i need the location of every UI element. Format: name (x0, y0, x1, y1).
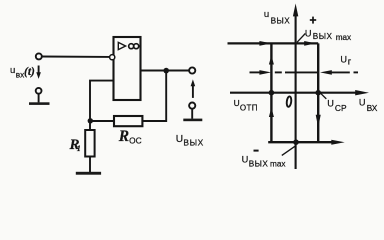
svg-text:ОС: ОС (129, 136, 142, 146)
R1 bottom lead (89, 157, 91, 173)
svg-text:U: U (176, 134, 183, 145)
svg-text:R: R (118, 128, 129, 145)
ground (input side) (29, 102, 50, 105)
node A junction dot (88, 118, 93, 123)
pointer line to -U_BbIXmax label (282, 146, 295, 155)
output ground terminal circle (189, 103, 195, 109)
input ground terminal circle (36, 88, 42, 94)
svg-text:ОТП: ОТП (240, 103, 258, 112)
wire node A to Roc (90, 120, 114, 122)
svg-text:г: г (348, 56, 352, 67)
label 0 at origin (286, 96, 292, 107)
plus sign (310, 17, 316, 24)
svg-text:ВЫХ: ВЫХ (183, 137, 203, 147)
label U_BbIXmax (bottom) (242, 155, 286, 169)
label U_BbIXmax (top) (305, 29, 351, 43)
label R1 (69, 137, 81, 153)
label Roc (118, 128, 142, 146)
junction dot at U_OTP on x-axis (269, 90, 275, 96)
resistor Roc (114, 116, 142, 126)
svg-text:U: U (359, 97, 366, 107)
output voltage arrow (up) (191, 79, 196, 98)
label u_BbIX (y axis) (264, 9, 290, 26)
svg-text:ВХ: ВХ (367, 103, 378, 113)
non-inverting input wire from node A (90, 81, 114, 121)
svg-text:U: U (234, 98, 240, 108)
op-amp infinity symbol (129, 44, 139, 49)
hysteresis top line (228, 42, 319, 44)
svg-text:ВЫХ: ВЫХ (271, 17, 291, 26)
label u_BX(t) (10, 65, 35, 80)
svg-text:СР: СР (335, 103, 347, 113)
junction dot at -Umax on y-axis (293, 139, 299, 145)
hysteresis bottom line (268, 141, 332, 143)
down arrow on right vertical (316, 115, 321, 128)
hysteresis left vertical at U_OTP (270, 43, 272, 142)
svg-text:max: max (336, 33, 351, 42)
resistor R1 (85, 130, 94, 157)
pointer line to +U_BbIXmax label (297, 34, 305, 43)
hysteresis right vertical at U_CP (317, 43, 319, 142)
wire input terminal to op-amp inverting input (42, 56, 110, 58)
output ground stem (191, 109, 193, 119)
svg-text:U: U (327, 98, 334, 108)
label u_BbIX (circuit output) (176, 134, 204, 147)
svg-text:u: u (10, 65, 15, 76)
pointer line to U_CP label (321, 93, 327, 99)
svg-text:U: U (242, 155, 249, 165)
svg-text:ВЫХ: ВЫХ (249, 159, 269, 168)
label U_g (340, 55, 351, 68)
output terminal (189, 67, 195, 73)
input terminal (36, 53, 42, 59)
output node junction dot (163, 68, 169, 74)
x-axis u_BX (230, 90, 369, 95)
y-axis u_BbIX (293, 4, 298, 170)
up arrow on left vertical (upper) (269, 55, 274, 64)
label U_OTP (234, 98, 258, 112)
svg-text:1: 1 (77, 144, 81, 153)
junction dot at U_CP on x-axis (315, 90, 321, 96)
wire node A to R1 (89, 121, 91, 131)
ground (output side) (183, 119, 202, 122)
minus sign (254, 150, 259, 152)
inverting input inversion circle (110, 55, 115, 60)
svg-text:вх: вх (16, 71, 24, 80)
svg-text:ВЫХ: ВЫХ (313, 32, 333, 41)
U_g dimension line with inward arrows (250, 70, 359, 75)
input ground stem (38, 94, 40, 103)
arrow on top line at U_OTP (259, 41, 271, 46)
label u_BX (x axis) (359, 97, 378, 113)
op-amp gain triangle symbol (118, 42, 125, 49)
svg-text:max: max (270, 159, 285, 168)
input signal arrow (down) (36, 66, 41, 79)
ground (R1) (76, 172, 101, 175)
up arrow on left vertical (lower) (269, 107, 274, 117)
label U_CP (327, 98, 347, 113)
op-amp U1 body (114, 37, 141, 100)
feedback wire Roc to output node (142, 71, 166, 121)
svg-text:(t): (t) (24, 66, 35, 78)
svg-text:U: U (340, 55, 347, 65)
output wire (141, 70, 190, 72)
svg-text:u: u (264, 9, 269, 20)
svg-text:U: U (305, 29, 312, 39)
arrow at right end of bottom line (331, 140, 344, 145)
arrow on top line near U_CP (304, 41, 316, 46)
